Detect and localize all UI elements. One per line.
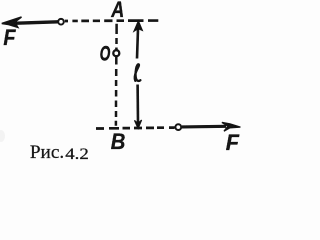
arrowhead of top force arrow	[2, 17, 22, 27]
arrowhead of bottom force arrow	[222, 122, 241, 131]
svg-text:A: A	[110, 0, 124, 23]
svg-text:4.2: 4.2	[65, 144, 89, 162]
node: application point circle on bottom arrow	[175, 124, 181, 130]
svg-text:Рис.: Рис.	[30, 142, 64, 163]
node: application point circle on top arrow	[58, 19, 64, 25]
wire: shaft of top force arrow	[13, 22, 58, 24]
wire: vertical dashed line A-B	[115, 24, 118, 126]
svg-text:O: O	[100, 41, 111, 65]
wire: bottom dashed line through B	[96, 126, 175, 130]
force arrow F at A (top-left, pointing left)	[2, 17, 58, 27]
wire: shaft of bottom force arrow	[182, 125, 226, 129]
faint smudge left edge	[0, 130, 5, 142]
svg-text:F: F	[3, 26, 16, 50]
dimension line l (upper segment with up arrowhead)	[134, 21, 142, 59]
force arrow F at B (bottom-right, pointing right)	[182, 122, 240, 131]
svg-text:B: B	[111, 129, 126, 154]
node O: circle at midpoint	[113, 50, 119, 56]
svg-text:F: F	[226, 129, 240, 155]
dimension line l (lower segment with down arrowhead)	[135, 85, 142, 129]
label l (script ell)	[135, 64, 141, 81]
wire: top dashed line through A	[65, 19, 159, 22]
